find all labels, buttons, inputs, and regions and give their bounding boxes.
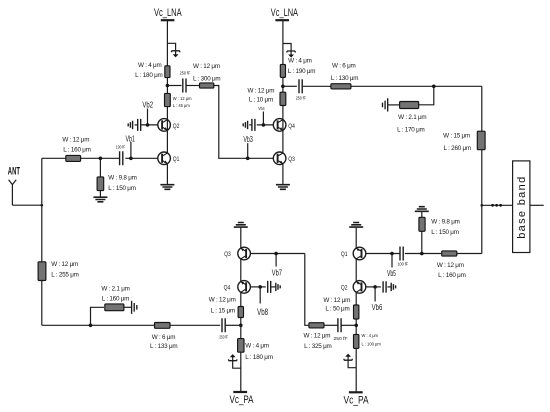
- wire Vb5 riser: [391, 254, 393, 268]
- svg-text:ANT: ANT: [8, 165, 20, 177]
- svg-text:L : 45 μm: L : 45 μm: [173, 103, 191, 108]
- capacitor bypass and ground at TL9 stub end: [388, 104, 400, 106]
- bypass capacitor to ground at Vc_LNA stage 2: [283, 44, 291, 55]
- svg-text:W : 12 μm: W : 12 μm: [303, 333, 330, 340]
- wire antenna node to TL4: [42, 157, 66, 159]
- svg-text:L : 160 μm: L : 160 μm: [438, 272, 465, 279]
- capacitor C3 250 fF (stage-2 output coupling): [283, 85, 297, 87]
- wire output corner down to TL10: [481, 86, 483, 131]
- ground (rotated) at Vb6: [391, 283, 395, 291]
- bypass capacitor to ground at Vc_PA (left): [233, 357, 241, 368]
- wire TL8 to corner node C: [351, 85, 482, 87]
- bypass capacitor to ground at Vc_LNA stage 1: [167, 43, 175, 54]
- wire Vb8 riser: [259, 287, 261, 304]
- wire shunt stub down from input node: [99, 158, 101, 177]
- wire Vb4 riser: [262, 112, 264, 125]
- resistor TL8 W:6um L:130um (LNA output line): [331, 84, 351, 89]
- svg-text:Vb3: Vb3: [243, 135, 253, 144]
- resistor TL20 W:6um L:133um (TX series): [155, 323, 171, 329]
- resistor TL6 W:4um L:190um (collector feed, stage 2): [280, 64, 285, 77]
- ground (rotated) at Vb4 bypass: [243, 121, 247, 129]
- svg-text:100 fF: 100 fF: [116, 145, 126, 150]
- transistor Q1 (LNA input, stage 1): [158, 152, 171, 165]
- wire TL6 to node B / node B junction: [282, 77, 284, 92]
- capacitor C4 100 fF (PA coupling): [400, 247, 403, 261]
- svg-text:Vc_LNA: Vc_LNA: [271, 7, 299, 19]
- wire Q1 emitter to ground: [166, 164, 168, 185]
- resistor TL9 W:2.1um L:170um (shunt stub): [400, 102, 419, 109]
- capacitor bypass and ground at TL19 stub end: [124, 306, 132, 308]
- wire C4 to Vb5 node: [366, 253, 400, 255]
- svg-text:L : 160 μm: L : 160 μm: [63, 147, 90, 154]
- svg-text:250 fF: 250 fF: [334, 336, 348, 342]
- wire C5 to node E: [341, 324, 356, 326]
- capacitor bypass at Vb6: [383, 281, 386, 292]
- svg-text:Vc_PA: Vc_PA: [230, 394, 254, 406]
- transistor Q4 (PA driver 2): [238, 281, 251, 294]
- wire Vc_LNA stage2 down to TL6: [282, 20, 284, 64]
- wire Q1 bottom to Q2 top: [355, 259, 357, 282]
- svg-text:W : 9.8 μm: W : 9.8 μm: [108, 175, 136, 182]
- capacitor bypass at Vb2: [138, 119, 141, 131]
- svg-text:W : 12 μm: W : 12 μm: [193, 63, 220, 70]
- svg-text:W : 12 μm: W : 12 μm: [247, 88, 274, 95]
- power Vc_LNA supply bar (stage 2): [275, 19, 289, 21]
- svg-text:W : 2.1 μm: W : 2.1 μm: [398, 114, 426, 121]
- svg-text:Q4: Q4: [224, 285, 231, 292]
- node Vb8 junction on Q4 base: [250, 286, 265, 288]
- svg-text:Q2: Q2: [173, 123, 180, 130]
- wire Q1 base to Vb1 node: [125, 157, 158, 159]
- power Vc_PA supply bar (right): [349, 391, 363, 393]
- svg-text:Q3: Q3: [224, 251, 231, 258]
- wire Q3 base line down to TL15: [305, 254, 309, 326]
- svg-text:Vc_LNA: Vc_LNA: [154, 7, 182, 19]
- resistor TL16 W:12um L:15um: [238, 307, 243, 318]
- wire T/R node left to TL11: [457, 253, 482, 255]
- resistor TL18 W:12um L:255um (TX line vertical): [38, 262, 46, 281]
- svg-text:W : 12 μm: W : 12 μm: [437, 262, 464, 269]
- capacitor C6 250 fF (TX coupling): [222, 318, 225, 332]
- bypass capacitor to ground at Vc_PA (right): [348, 356, 356, 367]
- svg-text:250 fF: 250 fF: [180, 71, 191, 76]
- svg-text:L : 325 μm: L : 325 μm: [304, 343, 331, 350]
- ground below Q3: [276, 185, 290, 190]
- resistor TL3 W:12um L:45um (interstage, stage 1): [165, 93, 171, 106]
- wire shared RF line vertical (RX/TX): [41, 158, 43, 325]
- resistor TL19 W:2.1um L:160um (TX shunt): [105, 304, 124, 311]
- svg-text:L : 180 μm: L : 180 μm: [245, 354, 272, 361]
- wire C6 to PA left node F: [225, 324, 241, 326]
- wire TL14 down to Vc_PA: [355, 348, 357, 392]
- svg-text:Q3: Q3: [288, 156, 295, 163]
- wire Q4 bottom to TL16: [240, 292, 242, 306]
- svg-text:Vb6: Vb6: [372, 303, 383, 312]
- wire Q4 emitter to Q3 collector: [282, 130, 284, 153]
- wire TL10 down to T/R node: [481, 150, 483, 254]
- wire TL12 to upper ground: [421, 212, 423, 218]
- wire node D up to TL12: [421, 231, 423, 253]
- ground (rotated) at Vb2 bypass: [128, 121, 132, 129]
- wire TL7 to Q4 collector: [282, 106, 284, 120]
- svg-text:100 fF: 100 fF: [397, 261, 408, 266]
- transistor Q4 (LNA cascode, stage 2): [273, 119, 286, 132]
- wire tee to base band with break dots: [482, 204, 513, 206]
- transistor Q1 (PA output): [353, 247, 366, 260]
- wire node C shunt branch down-left: [419, 86, 434, 105]
- svg-text:W : 6 μm: W : 6 μm: [152, 334, 176, 341]
- wire TL5 to ground: [99, 191, 101, 197]
- transistor Q3 (LNA second stage input): [273, 152, 286, 165]
- svg-text:Vb4: Vb4: [258, 106, 265, 111]
- capacitor bypass at Vb8: [268, 281, 271, 293]
- svg-text:L : 300 μm: L : 300 μm: [193, 76, 220, 83]
- power Vc_LNA supply bar (stage 1): [161, 19, 175, 21]
- svg-text:L : 50 μm: L : 50 μm: [325, 306, 349, 313]
- svg-text:250 fF: 250 fF: [219, 335, 228, 340]
- svg-text:W : 6 μm: W : 6 μm: [332, 63, 356, 70]
- wire TX line bottom horizontal: [42, 324, 220, 326]
- wire antenna to main RF node: [12, 204, 41, 206]
- ground (up) above PA Q1: [349, 223, 363, 228]
- resistor TL1 W:4um L:180um (collector feed, stage 1): [165, 66, 170, 78]
- capacitor C2 100 fF (input coupling): [120, 151, 123, 165]
- power Vc_PA supply bar (left): [233, 391, 247, 393]
- ground (up) above TL12: [415, 207, 429, 212]
- wire node G up to TL19: [91, 307, 105, 325]
- wire Vc_LNA down to resistor TL1: [166, 20, 168, 66]
- resistor TL17 W:4um L:180um (PA feed left): [238, 339, 244, 353]
- svg-text:W : 12 μm: W : 12 μm: [173, 96, 192, 101]
- svg-text:L : 160 μm: L : 160 μm: [102, 296, 129, 303]
- wire TL17 down to Vc_PA (left): [240, 352, 242, 392]
- wire Vb3 riser: [247, 143, 249, 158]
- wire TL16 to node F: [240, 318, 242, 341]
- capacitor C5 250 fF: [324, 324, 338, 326]
- wire Vb6 riser: [374, 287, 376, 302]
- node Vb4 junction and base wire of Q4: [257, 124, 274, 126]
- ground below Q1: [160, 185, 174, 190]
- svg-text:L : 260 μm: L : 260 μm: [444, 145, 471, 152]
- svg-text:Vc_PA: Vc_PA: [344, 395, 370, 407]
- transistor Q2 (PA driver): [353, 281, 366, 294]
- svg-text:L : 150 μm: L : 150 μm: [108, 185, 135, 192]
- svg-text:W : 4 μm: W : 4 μm: [362, 333, 379, 338]
- node Vb3 junction on Q3 base wire: [241, 157, 273, 159]
- wire C3 to TL8: [302, 85, 331, 87]
- wire TL11 to shunt node D: [405, 253, 442, 255]
- node Vb2 junction and base wire of Q2: [141, 124, 158, 126]
- svg-text:Q1: Q1: [173, 156, 180, 163]
- svg-text:Q4: Q4: [288, 123, 295, 130]
- wire base band right pin: [530, 204, 544, 206]
- svg-text:Q1: Q1: [341, 251, 348, 258]
- svg-text:250 fF: 250 fF: [296, 95, 307, 100]
- svg-text:Vb2: Vb2: [142, 101, 153, 110]
- base band block: [513, 161, 530, 253]
- svg-text:W : 12 μm: W : 12 μm: [51, 261, 78, 268]
- svg-text:Vb5: Vb5: [387, 269, 396, 278]
- wire Q1 top to ground (up): [355, 228, 357, 249]
- svg-text:Vb7: Vb7: [272, 269, 283, 278]
- svg-text:L : 15 μm: L : 15 μm: [211, 308, 235, 315]
- svg-text:Vb8: Vb8: [257, 307, 268, 317]
- svg-text:W : 15 μm: W : 15 μm: [443, 132, 470, 139]
- svg-text:W : 9.8 μm: W : 9.8 μm: [431, 219, 459, 226]
- svg-text:L : 180 μm: L : 180 μm: [135, 72, 162, 79]
- svg-text:W : 12 μm: W : 12 μm: [323, 297, 350, 304]
- wire TL3 to Q2 collector: [166, 107, 168, 120]
- resistor TL2 W:12um L:300um (stage-1 output match): [186, 85, 199, 87]
- svg-text:W : 2.1 μm: W : 2.1 μm: [101, 286, 129, 293]
- resistor TL4 W:12um L:160um (input line): [66, 155, 81, 161]
- antenna symbol: [9, 180, 17, 205]
- svg-text:W : 12 μm: W : 12 μm: [62, 137, 89, 144]
- resistor TL14 W:4um L:100um (PA feed): [354, 334, 359, 348]
- resistor TL11 W:12um L:160um (PA input line): [442, 251, 457, 256]
- wire TL13 to node E: [355, 319, 357, 334]
- wire ground (up) above PA Q3: [234, 223, 248, 228]
- svg-text:L : 100 μm: L : 100 μm: [362, 342, 382, 347]
- wire input line to C2: [81, 157, 120, 159]
- svg-text:W : 4 μm: W : 4 μm: [288, 57, 312, 64]
- svg-text:W : 4 μm: W : 4 μm: [245, 342, 269, 349]
- svg-text:W : 12 μm: W : 12 μm: [209, 297, 236, 304]
- capacitor bypass at Vb4: [252, 119, 255, 131]
- svg-text:Q2: Q2: [341, 285, 348, 292]
- wire Q3 bottom to Q4 top: [240, 259, 242, 282]
- ground below TL5: [93, 197, 107, 202]
- wire Vb1 riser: [130, 142, 132, 158]
- wire TL1 to node A / node A junction: [166, 78, 168, 94]
- svg-text:L : 133 μm: L : 133 μm: [150, 343, 177, 350]
- resistor TL5 W:9.8um L:150um (input shunt): [97, 177, 104, 191]
- transistor Q3 (PA interstage): [238, 247, 251, 260]
- resistor TL10 W:15um L:260um (vertical output line): [477, 131, 485, 150]
- svg-text:W : 4 μm: W : 4 μm: [138, 62, 162, 69]
- node G shunt junction: [89, 324, 93, 328]
- wire Q3 emitter to ground: [282, 164, 284, 185]
- resistor TL15 W:12um L:325um: [309, 323, 324, 328]
- capacitor C1 250 fF (stage-1 output coupling): [167, 85, 181, 87]
- wire Vb7 riser: [275, 254, 277, 267]
- svg-text:Vb1: Vb1: [125, 135, 135, 144]
- svg-text:L : 10 μm: L : 10 μm: [249, 97, 273, 104]
- svg-text:L : 150 μm: L : 150 μm: [431, 229, 458, 236]
- wire Q2 emitter to Q1 collector: [166, 130, 168, 153]
- resistor TL12 W:9.8um L:150um (PA input shunt): [419, 217, 425, 231]
- svg-text:L : 130 μm: L : 130 μm: [331, 75, 358, 82]
- ground (rotated) at Vb8: [276, 283, 280, 291]
- svg-text:L : 255 μm: L : 255 μm: [51, 272, 78, 279]
- node antenna tee on RF line: [41, 204, 44, 207]
- wire Q2 bottom to TL13: [355, 292, 357, 305]
- node T/R tee to base band: [481, 204, 484, 207]
- svg-text:base band: base band: [516, 177, 528, 239]
- transistor Q2 (LNA cascode, stage 1): [158, 119, 171, 132]
- resistor TL7 W:12um L:10um (interstage, stage 2): [280, 92, 286, 105]
- resistor TL13 W:12um L:50um: [354, 305, 359, 319]
- wire Vb2 riser: [147, 109, 149, 125]
- wire stage1 output down to Q3 base row: [214, 86, 242, 159]
- node Vb6 junction on Q2 base: [366, 286, 381, 288]
- svg-text:L : 170 μm: L : 170 μm: [397, 126, 424, 133]
- node Vb7 junction on Q3 base: [250, 253, 304, 255]
- svg-text:L : 190 μm: L : 190 μm: [288, 68, 315, 75]
